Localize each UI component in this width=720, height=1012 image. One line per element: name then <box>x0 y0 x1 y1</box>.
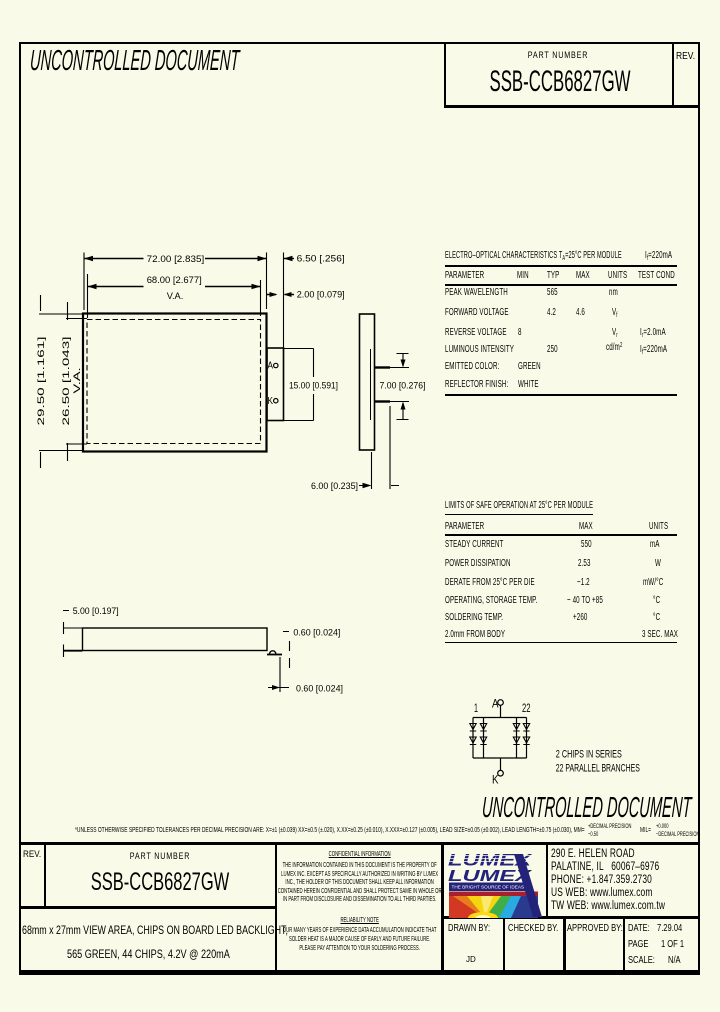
dimension 7.00 [0.276] pin spacing <box>380 354 426 420</box>
pin A label <box>268 361 278 372</box>
svg-text:22: 22 <box>522 701 531 715</box>
LED D1b <box>470 737 476 745</box>
top bus wire <box>473 717 527 719</box>
branch label 1 <box>474 701 478 715</box>
svg-text:K: K <box>268 396 274 407</box>
side view pin 2 <box>375 400 391 402</box>
dimension 68.00 [2.677] / V.A. <box>88 274 261 318</box>
branch label 22 <box>522 701 531 715</box>
schematic note: series/parallel <box>556 749 640 775</box>
svg-text:THE BRIGHT SOURCE OF IDEAS®: THE BRIGHT SOURCE OF IDEAS® <box>452 885 529 890</box>
svg-text:26.50 [1.043]: 26.50 [1.043] <box>61 337 72 426</box>
LED D21a <box>513 724 519 732</box>
svg-text:6.00 [0.235]: 6.00 [0.235] <box>311 481 358 492</box>
svg-text:V.A.: V.A. <box>72 368 83 394</box>
dimension 0.60 [0.024] lead thickness <box>283 627 340 668</box>
view area V.A. dashed outline <box>87 320 261 444</box>
svg-text:5.00 [0.197]: 5.00 [0.197] <box>73 606 119 617</box>
dimension 72.00 [2.835] <box>84 253 267 311</box>
svg-text:1: 1 <box>474 701 478 715</box>
bottom profile view body <box>63 628 267 651</box>
svg-text:15.00 [0.591]: 15.00 [0.591] <box>289 381 338 392</box>
node A (anode terminal) <box>492 697 503 711</box>
side view body (right profile) <box>360 314 375 450</box>
connector block <box>267 348 284 421</box>
dimension 26.50 [1.043] V.A. (left, rotated) <box>61 302 87 461</box>
svg-text:K: K <box>492 773 499 787</box>
LED D2a <box>480 724 486 732</box>
dimension 6.50 [.256] <box>284 253 345 391</box>
svg-text:6.50 [.256]: 6.50 [.256] <box>297 253 345 264</box>
dimension 29.50 [1.161] (left, rotated) <box>36 295 82 468</box>
title: UNCONTROLLED DOCUMENT top left <box>29 45 240 78</box>
svg-text:A: A <box>268 361 274 372</box>
signature row <box>448 922 490 934</box>
branch 1 wire <box>472 718 474 759</box>
LED D2b <box>480 737 486 745</box>
dimension 0.60 [0.024] lead offset <box>268 657 343 695</box>
bottom view pin (bent lead) <box>267 651 282 655</box>
side view pin 1 <box>375 366 391 368</box>
module body (front view) <box>83 314 267 452</box>
branch 21 wire <box>516 718 518 759</box>
branch 2 wire <box>483 718 485 759</box>
LED D1a <box>470 724 476 732</box>
lumex address block <box>551 848 635 860</box>
UNCONTROLLED DOCUMENT bottom <box>481 792 692 825</box>
svg-text:72.00 [2.835]: 72.00 [2.835] <box>147 254 205 265</box>
dimension 5.00 [0.197] thickness <box>63 606 119 657</box>
svg-text:2.00 [0.079]: 2.00 [0.079] <box>297 290 345 301</box>
svg-text:29.50 [1.161]: 29.50 [1.161] <box>36 337 47 426</box>
wire bottom bus to cathode <box>500 758 502 770</box>
node K (cathode terminal) <box>492 770 503 786</box>
pin K label <box>268 396 278 407</box>
dimension 6.00 [0.236] module thickness <box>311 406 399 492</box>
dimension 15.00 [0.591] connector height <box>284 349 338 421</box>
confidential information block <box>277 849 442 858</box>
branch 22 wire <box>526 718 528 759</box>
svg-text:0.60 [0.024]: 0.60 [0.024] <box>293 627 340 638</box>
svg-text:7.00 [0.276]: 7.00 [0.276] <box>380 381 426 392</box>
part number box top right <box>444 44 674 108</box>
LED D22b <box>523 737 529 745</box>
svg-text:Inc.: Inc. <box>534 913 543 918</box>
svg-text:V.A.: V.A. <box>167 291 184 302</box>
bottom bus wire <box>473 757 527 759</box>
svg-text:22 PARALLEL BRANCHES: 22 PARALLEL BRANCHES <box>556 763 640 775</box>
dimension 2.00 [0.079] <box>267 290 345 301</box>
LED D22a <box>523 724 529 732</box>
svg-text:68.00 [2.677]: 68.00 [2.677] <box>147 275 202 286</box>
wire anode to top bus <box>500 705 502 717</box>
LED D21b <box>513 737 519 745</box>
lumex logo <box>443 845 547 918</box>
svg-text:2 CHIPS IN SERIES: 2 CHIPS IN SERIES <box>556 749 622 761</box>
svg-text:0.60 [0.024]: 0.60 [0.024] <box>296 684 343 695</box>
